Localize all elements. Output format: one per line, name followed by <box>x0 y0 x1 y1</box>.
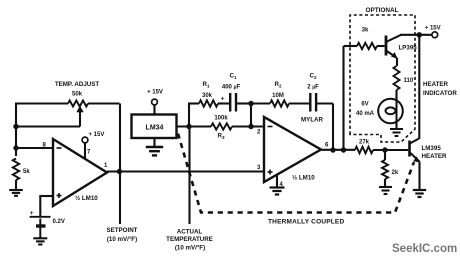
label pin 6 <box>325 143 329 149</box>
potentiometer TEMP ADJUST 50k <box>68 101 88 127</box>
ground U2 pin 4 <box>270 188 285 195</box>
wire junction riser down <box>250 104 252 127</box>
lamp 6V 40mA <box>378 99 403 125</box>
label 100k <box>214 116 228 122</box>
label C1 <box>229 73 236 81</box>
svg-text:HEATER: HEATER <box>422 153 448 160</box>
wire C1 to node <box>237 102 252 104</box>
label 40mA <box>356 111 375 117</box>
resistor 2k <box>382 160 388 179</box>
wire U1 pin 7 supply stub <box>84 143 86 159</box>
svg-text:+ 15V: + 15V <box>89 132 105 138</box>
label 10M <box>272 93 284 99</box>
ground below lamp <box>390 129 403 136</box>
wire node to R2 <box>251 102 270 104</box>
label 0.2V <box>53 219 65 225</box>
svg-text:½ LM10: ½ LM10 <box>292 175 315 182</box>
wire riser output to 3k <box>344 46 358 150</box>
label pin 8 <box>43 143 47 149</box>
capacitor C1 400uF <box>230 93 236 112</box>
wire 2k to ground <box>384 179 386 187</box>
svg-text:(10 mV/°F): (10 mV/°F) <box>107 236 137 243</box>
svg-text:SETPOINT: SETPOINT <box>107 227 138 234</box>
svg-text:LM34: LM34 <box>146 125 164 132</box>
ground below LM34 <box>146 147 163 155</box>
label setpoint units <box>107 236 137 243</box>
label 2k <box>392 170 399 176</box>
wire U1 output <box>107 170 264 172</box>
resistor R1 30k <box>199 100 218 106</box>
op-amp U1 half LM10 <box>53 139 107 206</box>
label half LM10 U2 <box>292 175 315 182</box>
U2 minus sign <box>268 126 273 128</box>
label 400uF <box>222 85 241 91</box>
wire feedback top <box>16 102 68 104</box>
transistor Q2 LM395 <box>410 139 421 163</box>
label half LM10 U1 <box>75 195 98 202</box>
wire left rail <box>15 103 17 157</box>
label MYLAR <box>301 117 324 124</box>
svg-text:110: 110 <box>404 78 414 84</box>
wire riser LM34 node to R1 <box>188 104 199 127</box>
label actual units <box>175 244 205 251</box>
label 5k <box>23 169 30 175</box>
wire noninverting input <box>40 195 53 217</box>
resistor R3 100k <box>211 123 232 129</box>
optional dashed box <box>350 15 415 142</box>
svg-text:THERMALLY COUPLED: THERMALLY COUPLED <box>268 219 344 226</box>
label LP395 <box>399 45 418 52</box>
svg-text:TEMPERATURE: TEMPERATURE <box>166 236 213 243</box>
svg-text:50k: 50k <box>72 92 83 98</box>
svg-text:LM395: LM395 <box>422 145 442 152</box>
svg-text:5k: 5k <box>23 169 30 175</box>
label R1 <box>202 81 209 89</box>
svg-text:SeekIC.com: SeekIC.com <box>392 243 457 255</box>
svg-text:3k: 3k <box>362 28 369 34</box>
capacitor C2 2uF mylar <box>310 93 316 112</box>
node +15V junction <box>417 32 422 37</box>
svg-text:TEMP. ADJUST: TEMP. ADJUST <box>55 81 100 88</box>
wire U2 output <box>321 149 355 151</box>
label pin 1 <box>104 163 108 169</box>
svg-text:ACTUAL: ACTUAL <box>177 229 203 236</box>
ground below 5k <box>9 190 23 196</box>
svg-text:+: + <box>30 210 34 217</box>
wire Q1 collector to +15V <box>400 34 432 36</box>
node wiper junction <box>13 124 18 129</box>
wire LM34 supply stub <box>153 105 155 116</box>
battery 0.2V <box>30 217 51 238</box>
svg-text:+ 15V: + 15V <box>425 26 441 32</box>
svg-text:MYLAR: MYLAR <box>301 117 324 124</box>
label C2 <box>309 73 316 81</box>
label HEATER Q2 <box>422 153 448 160</box>
label 50k <box>72 92 83 98</box>
transistor Q1 LP395 <box>386 35 401 59</box>
svg-text:30k: 30k <box>202 93 213 99</box>
node feedback at output <box>330 147 335 152</box>
label R2 <box>274 81 281 89</box>
wire feedback right <box>88 102 120 104</box>
op-amp U2 half LM10 <box>264 117 321 182</box>
wire lamp to ground <box>395 124 397 130</box>
terminal +15V U1 <box>82 137 88 143</box>
resistor 110 <box>394 66 400 90</box>
terminal +15V right <box>432 32 438 38</box>
label TEMP ADJUST <box>55 81 100 88</box>
ground below 2k <box>379 187 392 194</box>
node setpoint junction <box>117 169 122 174</box>
svg-text:(10 mV/°F): (10 mV/°F) <box>175 244 205 251</box>
svg-text:10M: 10M <box>272 93 284 99</box>
U1 minus sign <box>57 147 62 149</box>
wire 110 to lamp <box>395 90 397 99</box>
label 6V <box>361 102 368 108</box>
wire U2 pin 4 stub <box>276 174 278 187</box>
label 3k <box>362 28 369 34</box>
wire actual temperature callout <box>188 127 190 225</box>
watermark SeekIC.com <box>392 243 457 255</box>
battery plus sign <box>30 210 34 217</box>
label +15V U1 <box>89 132 105 138</box>
label 27k <box>359 140 370 146</box>
svg-text:½ LM10: ½ LM10 <box>75 195 98 202</box>
node 2k junction <box>382 147 387 152</box>
wire LM34 ground stub <box>153 138 155 147</box>
svg-text:27k: 27k <box>359 140 370 146</box>
thermal coupling dashed path <box>178 134 414 213</box>
label THERMALLY COUPLED <box>268 219 344 226</box>
svg-text:LP395: LP395 <box>399 45 418 52</box>
label LM395 <box>422 145 442 152</box>
label ACTUAL <box>177 229 203 236</box>
resistor 5k <box>13 159 19 181</box>
wire Q1 emitter stub <box>396 58 398 66</box>
wire 27k to Q2 base <box>373 149 408 151</box>
wire wiper to left rail <box>16 125 80 127</box>
terminal +15V LM34 <box>152 99 158 105</box>
label INDICATOR <box>423 90 457 97</box>
label +15V LM34 <box>147 90 163 96</box>
node C1 R2 junction <box>248 101 253 106</box>
label pin 3 <box>257 165 261 171</box>
C1 plus sign <box>221 95 225 102</box>
wire feedback riser / setpoint callout <box>119 104 121 225</box>
label pin 4 <box>280 182 284 188</box>
label pin 2 <box>257 130 261 136</box>
wire C2 to output riser <box>317 104 334 151</box>
node inverting input junction <box>13 145 18 150</box>
svg-text:INDICATOR: INDICATOR <box>423 90 457 97</box>
wire 5k to ground <box>15 180 17 190</box>
temperature sensor LM34 <box>132 115 177 139</box>
svg-text:HEATER: HEATER <box>423 81 449 88</box>
wire Q2 emitter to ground <box>418 162 420 191</box>
wire pin 8 input <box>16 147 53 149</box>
svg-text:OPTIONAL: OPTIONAL <box>365 7 398 14</box>
label +15V right <box>425 26 441 32</box>
label R3 <box>217 133 224 141</box>
svg-text:2 µF: 2 µF <box>307 85 319 91</box>
ground below Q2 <box>413 190 426 197</box>
wire R3 to U2 pin 2 <box>232 125 264 127</box>
svg-text:100k: 100k <box>214 116 228 122</box>
label HEATER <box>423 81 449 88</box>
resistor 3k <box>357 43 377 49</box>
wire LM34 output <box>177 125 212 127</box>
svg-text:6V: 6V <box>361 102 368 108</box>
U1 plus sign <box>57 193 62 198</box>
label 110 <box>404 78 414 84</box>
svg-text:40 mA: 40 mA <box>356 111 375 117</box>
label pin 7 <box>87 150 91 156</box>
wire Q2 collector riser <box>418 35 420 139</box>
node inverting node U2 <box>248 124 253 129</box>
node 3k riser junction <box>341 147 346 152</box>
svg-text:2k: 2k <box>392 170 399 176</box>
resistor 27k <box>355 147 373 154</box>
wire R2 to C2 <box>289 102 310 104</box>
U2 plus sign <box>268 170 273 175</box>
svg-text:400 µF: 400 µF <box>222 85 241 91</box>
wire R1 to C1 <box>218 102 230 104</box>
wire 2k stub <box>384 150 386 160</box>
label OPTIONAL <box>365 7 398 14</box>
label 30k <box>202 93 213 99</box>
wire 3k to Q1 base <box>377 45 385 47</box>
svg-text:+ 15V: + 15V <box>147 90 163 96</box>
resistor R2 10M <box>270 100 289 106</box>
label TEMPERATURE <box>166 236 213 243</box>
label 2uF <box>307 85 319 91</box>
svg-text:+: + <box>221 95 225 102</box>
svg-text:0.2V: 0.2V <box>53 219 65 225</box>
node LM34 output <box>186 124 191 129</box>
label SETPOINT <box>107 227 138 234</box>
ground below battery <box>33 238 47 244</box>
